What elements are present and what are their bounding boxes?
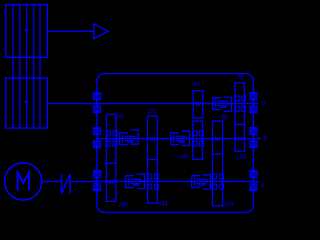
svg-text:69: 69 <box>193 82 200 89</box>
svg-text:z44: z44 <box>157 200 168 207</box>
svg-text:78: 78 <box>237 75 244 82</box>
svg-text:56: 56 <box>117 113 124 120</box>
svg-text:z76: z76 <box>146 109 157 116</box>
svg-text:z60: z60 <box>118 201 129 208</box>
svg-text:z48: z48 <box>178 153 189 160</box>
svg-text:z50: z50 <box>236 154 247 161</box>
svg-text:z68: z68 <box>223 201 234 208</box>
svg-text:48: 48 <box>221 114 228 121</box>
